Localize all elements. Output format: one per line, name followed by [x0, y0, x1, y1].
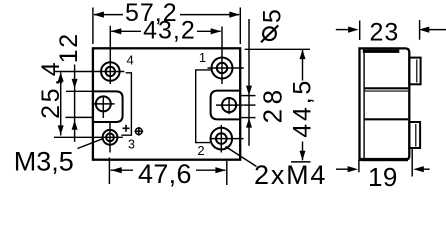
side view lid seam	[363, 50, 400, 53]
side view bottom edge emphasis	[361, 158, 408, 161]
side view inner wall	[363, 53, 365, 159]
svg-text:5: 5	[259, 9, 287, 23]
bracket terminals 1-2	[196, 70, 211, 143]
svg-text:3: 3	[128, 138, 135, 152]
bracket terminals 4-3	[121, 73, 131, 135]
dimension 19	[336, 148, 430, 177]
hole 4	[54, 26, 124, 84]
body outline left view	[93, 48, 240, 159]
side view divider upper	[364, 87, 408, 89]
dimension 23	[336, 20, 446, 40]
svg-text:2xM4: 2xM4	[254, 160, 327, 189]
slot outline right middle	[211, 91, 241, 120]
svg-text:47,6: 47,6	[138, 159, 192, 189]
side view top terminal tab	[409, 58, 420, 85]
hole left middle	[94, 96, 115, 119]
hole 2	[211, 125, 244, 153]
svg-text:4: 4	[126, 52, 133, 67]
hole 1	[208, 27, 244, 85]
svg-text:1: 1	[199, 50, 206, 65]
svg-text:2: 2	[197, 143, 204, 158]
hole right middle	[216, 97, 244, 114]
svg-text:23: 23	[369, 19, 399, 47]
svg-text:12: 12	[55, 32, 83, 63]
dimension 47,6	[109, 158, 226, 186]
dimension 44,5	[245, 49, 311, 162]
side view bottom terminal tab	[409, 122, 420, 148]
dimension 57,2	[93, 8, 240, 45]
dimension 43,2	[111, 30, 220, 32]
svg-text:19: 19	[368, 162, 398, 189]
side view divider lower	[364, 118, 408, 120]
plus polarity mark	[123, 125, 130, 132]
slot outline left middle	[93, 91, 123, 122]
svg-text:43,2: 43,2	[143, 17, 196, 45]
svg-text:M3,5: M3,5	[14, 146, 74, 176]
dimension 28	[242, 49, 256, 146]
hole 3	[54, 122, 123, 153]
svg-text:44,5: 44,5	[288, 78, 316, 138]
side view body	[360, 48, 410, 159]
earth circle-cross symbol	[134, 127, 143, 136]
svg-text:28: 28	[258, 85, 288, 123]
